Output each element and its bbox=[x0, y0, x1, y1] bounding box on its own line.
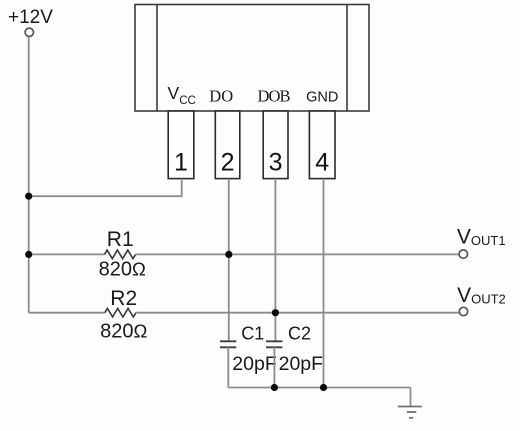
svg-text:DO: DO bbox=[209, 87, 233, 106]
terminal VOUT1 bbox=[459, 250, 467, 258]
capacitor C2 bbox=[266, 341, 282, 347]
wire R2 row left bbox=[29, 312, 105, 314]
terminal +12V bbox=[25, 28, 33, 36]
svg-text:+12V: +12V bbox=[8, 7, 53, 28]
pin 3 box bbox=[263, 111, 288, 179]
svg-text:1: 1 bbox=[174, 149, 188, 177]
wire R1 row right bbox=[136, 253, 460, 255]
IC U1 body bbox=[135, 5, 369, 112]
wire C1 bottom bbox=[227, 347, 229, 387]
wire pin1 to +12V rail bbox=[29, 179, 182, 197]
svg-text:C2: C2 bbox=[288, 324, 311, 344]
resistor R2 bbox=[105, 308, 136, 317]
resistor R1 bbox=[105, 250, 136, 259]
svg-text:R2: R2 bbox=[110, 287, 137, 310]
wire ground bus bbox=[228, 387, 410, 389]
svg-text:20pF: 20pF bbox=[279, 353, 324, 375]
wire DOB line (pin3 down to C2) bbox=[274, 179, 276, 342]
svg-text:R1: R1 bbox=[107, 228, 134, 251]
junction pin1 / +12V rail bbox=[25, 193, 32, 200]
svg-text:20pF: 20pF bbox=[232, 353, 277, 375]
pin 1 box bbox=[168, 111, 194, 179]
svg-text:2: 2 bbox=[221, 149, 235, 177]
junction R2 / DOB bbox=[272, 309, 279, 316]
svg-text:4: 4 bbox=[315, 149, 329, 177]
svg-text:3: 3 bbox=[269, 149, 283, 177]
junction pin4 / ground bus bbox=[320, 384, 327, 391]
capacitor C1 bbox=[220, 341, 236, 347]
junction +12V rail / R1 bbox=[25, 251, 32, 258]
ground symbol bbox=[398, 407, 422, 418]
wire GND line (pin4 down to ground bus) bbox=[323, 179, 325, 388]
wire +12V rail bbox=[28, 37, 30, 313]
wire DO line (pin2 down to C1) bbox=[228, 179, 230, 342]
wire C2 bottom bbox=[273, 347, 275, 387]
svg-text:820Ω: 820Ω bbox=[99, 259, 146, 281]
terminal VOUT2 bbox=[459, 307, 467, 315]
junction C2 / ground bus bbox=[271, 384, 278, 391]
wire ground stub bbox=[410, 388, 412, 407]
pin 2 box bbox=[215, 111, 240, 179]
svg-text:820Ω: 820Ω bbox=[100, 320, 147, 342]
wire R2 row right bbox=[136, 312, 460, 314]
svg-text:GND: GND bbox=[306, 90, 338, 106]
wire R1 row left bbox=[29, 253, 105, 255]
svg-text:DOB: DOB bbox=[258, 87, 291, 106]
svg-text:C1: C1 bbox=[241, 324, 264, 344]
pin 4 box bbox=[309, 111, 335, 179]
junction R1 / DO bbox=[225, 251, 232, 258]
